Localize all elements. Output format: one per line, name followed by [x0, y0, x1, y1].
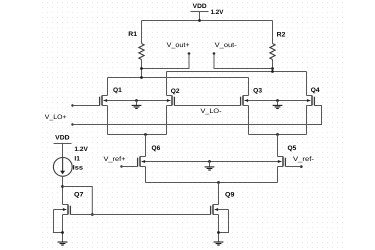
svg-text:Q7: Q7	[74, 191, 84, 198]
wire VDD rail	[142, 20, 273, 22]
node junction R1/V_out+	[140, 67, 143, 70]
node junction diode/gate bus	[91, 213, 94, 216]
wire bulk Q6-Q5 with arrows	[142, 160, 282, 163]
wire Q4 source	[306, 106, 308, 135]
wire Q5 gate to V_ref-	[285, 166, 301, 168]
ground G4 (under Q7)	[58, 242, 68, 245]
wire drain bus N (Q2/Q4 drains to R2)	[167, 71, 307, 73]
ground G3	[205, 162, 215, 171]
node V_out+	[167, 42, 191, 55]
svg-text:V_LO+: V_LO+	[45, 114, 67, 121]
ground G1	[132, 101, 142, 109]
node junction R2/V_out-	[271, 67, 274, 70]
wire Q7 bulk to source with arrow	[54, 208, 67, 233]
node junction Q6 drain/bus	[144, 133, 147, 136]
transistor Q5	[278, 145, 297, 167]
current source I1 Iss	[53, 155, 83, 176]
transistor Q2	[167, 88, 180, 106]
svg-text:Q3: Q3	[253, 87, 262, 94]
wire V_LO- (Q2 gate to Q3 gate)	[174, 105, 241, 107]
svg-text:Q9: Q9	[225, 191, 235, 198]
svg-text:1.2V: 1.2V	[74, 146, 88, 153]
node V_LO+ lower input	[71, 123, 73, 125]
wire source bus Q3/Q4	[249, 134, 307, 136]
svg-text:Iss: Iss	[73, 164, 84, 171]
svg-text:V_out+: V_out+	[167, 42, 190, 49]
wire bulk Q1-Q2 with arrows	[104, 99, 171, 102]
svg-text:Q5: Q5	[288, 145, 297, 152]
wire tail bus (Q6/Q5 sources to Q9 drain)	[146, 167, 278, 183]
resistor R1	[128, 21, 144, 78]
svg-text:V_ref-: V_ref-	[293, 156, 314, 163]
wire Q3 source	[248, 106, 250, 135]
node junction bulk/ground G1	[135, 99, 138, 102]
transistor Q9	[211, 191, 235, 214]
node V_ref+ input	[104, 156, 126, 168]
svg-text:Q6: Q6	[152, 145, 161, 152]
wire Q1 source	[107, 106, 109, 135]
wire gate bus Q7-Q9	[70, 214, 211, 216]
node V_out-	[213, 42, 237, 55]
node junction R1/bus P	[140, 76, 143, 79]
svg-text:VDD: VDD	[55, 135, 70, 142]
wire Q5 drain	[277, 135, 279, 157]
node junction Q9 drain/tail bus	[217, 181, 220, 184]
node junction bulk/ground G2	[276, 99, 279, 102]
node VDD junction	[198, 19, 201, 22]
svg-text:Q4: Q4	[311, 87, 320, 94]
node junction mirror tap	[61, 185, 64, 188]
node junction Q5 drain/bus	[276, 133, 279, 136]
svg-text:Q2: Q2	[171, 88, 180, 95]
wire Q2 source	[166, 106, 168, 135]
wire I1 to Q7 drain	[62, 176, 64, 204]
wire diode connection Q7	[63, 187, 93, 215]
node V_ref- input	[293, 156, 314, 168]
wire V_out- tap	[214, 54, 273, 69]
svg-text:Q1: Q1	[113, 87, 122, 94]
wire Q9 source	[218, 215, 220, 242]
wire Q7 source	[62, 215, 64, 242]
ground G5 (under Q9)	[214, 242, 224, 245]
svg-text:V_ref+: V_ref+	[104, 156, 126, 163]
svg-text:R2: R2	[277, 31, 286, 38]
svg-text:I1: I1	[74, 155, 80, 162]
transistor Q6	[138, 145, 161, 167]
wire V_LO+ to Q4 gate	[73, 106, 322, 125]
wire V_out+ tap	[142, 54, 190, 69]
wire Q9 drain	[218, 183, 220, 205]
node junction R2/bus N	[271, 70, 274, 73]
node junction Q7 source/bulk	[61, 231, 64, 234]
svg-text:V_LO-: V_LO-	[201, 108, 222, 115]
svg-text:1.2V: 1.2V	[211, 9, 225, 16]
wire Q9 bulk to source with arrow	[215, 208, 229, 233]
power symbol VDD (left)	[54, 135, 72, 158]
transistor Q1	[100, 87, 123, 105]
wire drain bus P (Q1/Q3 drains to R1)	[108, 77, 249, 79]
svg-text:R1: R1	[128, 31, 137, 38]
wire Q2 drain	[166, 72, 168, 96]
transistor Q7	[63, 191, 84, 214]
power symbol VDD (top)	[191, 3, 209, 21]
transistor Q4	[307, 87, 320, 105]
wire Q3 drain	[248, 78, 250, 96]
wire Q4 drain	[306, 72, 308, 96]
wire Q6 drain	[145, 135, 147, 157]
wire V_ref+ to Q6 gate	[122, 166, 138, 168]
transistor Q3	[241, 87, 263, 105]
node junction Q9 source/bulk	[217, 231, 220, 234]
wire source bus Q1/Q2	[108, 134, 167, 136]
node junction bulk/ground G3	[208, 160, 211, 163]
wire bulk Q3-Q4 with arrows	[245, 99, 311, 102]
node V_LO+ input	[45, 104, 74, 121]
ground G2	[273, 101, 283, 109]
svg-text:VDD: VDD	[193, 3, 207, 10]
wire Q1 drain	[107, 78, 109, 96]
resistor R2	[270, 21, 286, 72]
wire V_LO+ to Q1 gate	[73, 105, 100, 107]
svg-text:V_out-: V_out-	[215, 42, 237, 49]
